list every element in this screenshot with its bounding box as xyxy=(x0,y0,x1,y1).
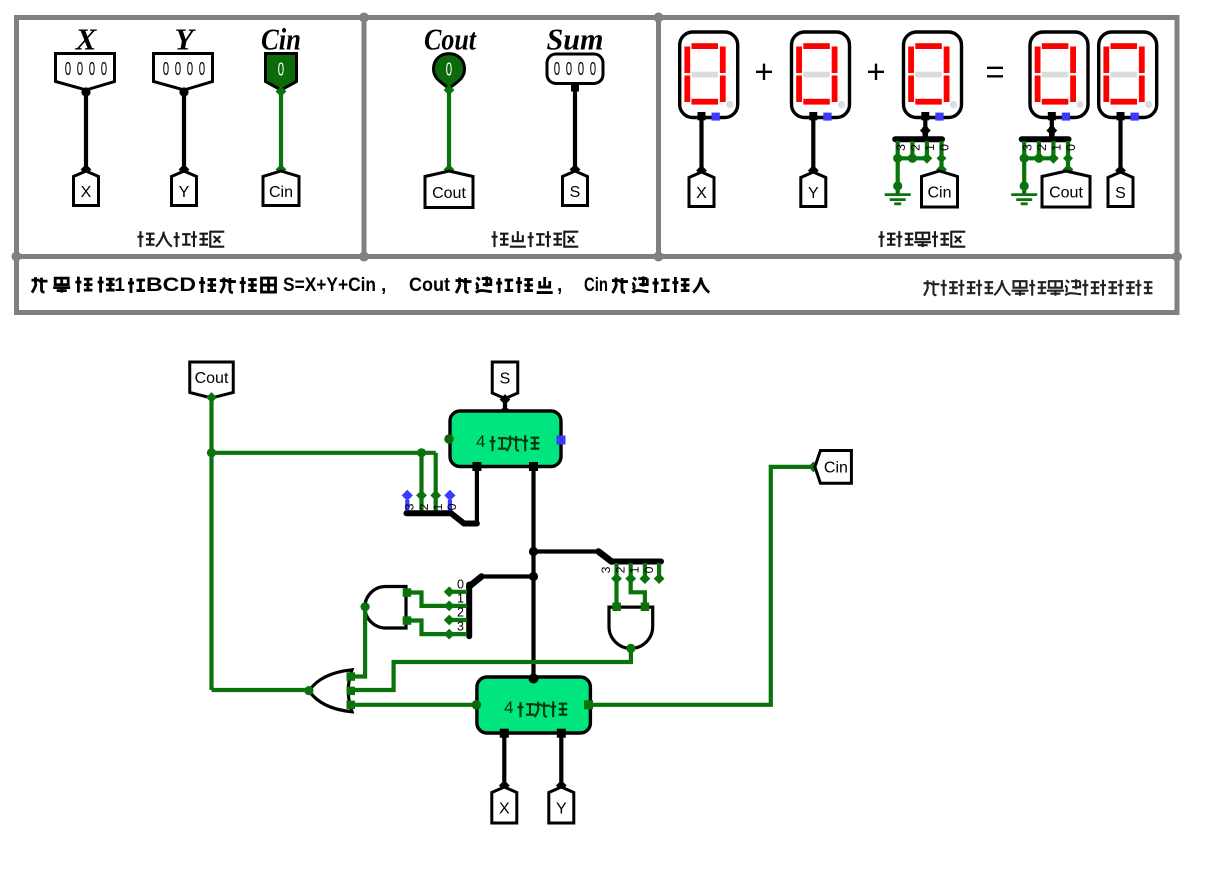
svg-text:2: 2 xyxy=(1035,144,1049,151)
tunnel S (monitor) xyxy=(1108,172,1133,207)
svg-text:,: , xyxy=(557,275,562,296)
svg-text:,: , xyxy=(381,275,386,296)
description text xyxy=(32,275,710,296)
svg-text:Cin: Cin xyxy=(261,22,301,57)
tunnel X (main bottom) xyxy=(492,787,517,823)
svg-text:2: 2 xyxy=(613,566,627,573)
wire adder U2 to tunnel Cin (right) xyxy=(590,467,814,705)
svg-text:2: 2 xyxy=(909,144,923,151)
wire U2 output to OR U4 xyxy=(353,607,366,677)
node: trunk junction 1 xyxy=(529,547,538,556)
svg-text:Cout: Cout xyxy=(195,370,229,387)
tunnel X (monitor) xyxy=(689,172,714,207)
svg-text:3: 3 xyxy=(457,620,464,634)
svg-text:Cin: Cin xyxy=(269,184,293,201)
svg-text:0: 0 xyxy=(938,144,952,151)
7-segment display 5 xyxy=(1099,32,1157,118)
wire SP4 leg2 to AND U3 xyxy=(631,579,645,605)
svg-text:1: 1 xyxy=(457,591,464,605)
wire SP5 leg1 to AND U2 xyxy=(411,593,449,606)
tunnel Y (main bottom) xyxy=(549,787,574,823)
wire display5 to tunnel S xyxy=(1118,119,1122,172)
svg-text:0: 0 xyxy=(554,59,560,79)
wire branch left to splitter SP5 xyxy=(481,574,534,578)
svg-text:Cin: Cin xyxy=(824,460,848,477)
section label 输出引脚区 xyxy=(492,231,579,247)
svg-text:+: + xyxy=(754,53,773,90)
section label 输入引脚区 xyxy=(138,231,225,247)
svg-text:0: 0 xyxy=(642,566,656,573)
trunk wire U1 to U2 xyxy=(531,470,535,674)
wire X pin to tunnel xyxy=(84,90,88,171)
svg-text:0: 0 xyxy=(199,59,205,79)
tunnel Y xyxy=(172,171,197,206)
svg-text:X: X xyxy=(75,22,98,57)
svg-text:0: 0 xyxy=(445,503,459,510)
splitter SP4 (down) xyxy=(612,559,662,565)
svg-text:3: 3 xyxy=(894,144,908,151)
svg-text:BCD: BCD xyxy=(146,275,196,296)
wire to splitter SP3 xyxy=(212,451,436,455)
input pin Y xyxy=(154,54,213,91)
7-segment display 4 xyxy=(1030,32,1088,118)
wire U4 output to Cout vertical xyxy=(212,688,309,692)
splitter for display4 xyxy=(1050,119,1054,127)
7-segment display 3 xyxy=(904,32,962,118)
svg-text:0: 0 xyxy=(1064,144,1078,151)
credit text xyxy=(924,279,1153,296)
wire Cout vertical xyxy=(209,398,213,690)
adder U1 carry-in dot xyxy=(444,434,454,444)
wire branch right to splitter SP4 xyxy=(534,549,600,553)
svg-text:Y: Y xyxy=(808,185,819,202)
wire SP4 leg3 to AND U3 xyxy=(614,579,618,605)
splitter for display3 xyxy=(923,119,927,127)
svg-text:1: 1 xyxy=(431,503,445,510)
and gate U3 (facing down) xyxy=(609,607,653,648)
svg-text:Cout: Cout xyxy=(409,275,451,296)
wire Y pin to tunnel xyxy=(182,90,186,171)
tunnel Cout (main, top-left) xyxy=(190,362,234,398)
svg-text:3: 3 xyxy=(599,566,613,573)
svg-text:Cin: Cin xyxy=(927,185,951,202)
svg-text:0: 0 xyxy=(590,59,596,79)
svg-text:0: 0 xyxy=(89,59,95,79)
splitter SP5 (left) xyxy=(466,585,472,637)
svg-text:0: 0 xyxy=(77,59,83,79)
svg-text:2: 2 xyxy=(457,606,464,620)
adder U1 enable pad xyxy=(557,436,566,445)
svg-text:+: + xyxy=(866,53,885,90)
or gate U4 (facing left) xyxy=(309,670,352,712)
svg-text:Sum: Sum xyxy=(547,22,604,57)
wire leg2 down xyxy=(419,453,423,511)
adder U2 carry-in dot xyxy=(472,700,482,710)
svg-text:4: 4 xyxy=(504,698,513,717)
svg-text:0: 0 xyxy=(101,59,107,79)
svg-text:S: S xyxy=(500,370,511,387)
tunnel S (main) xyxy=(492,362,518,399)
svg-text:0: 0 xyxy=(175,59,181,79)
svg-text:0: 0 xyxy=(163,59,169,79)
wire Sum pin to tunnel xyxy=(573,91,577,171)
7-segment display 1 xyxy=(680,32,738,118)
svg-text:0: 0 xyxy=(187,59,193,79)
wire Cin pin to tunnel xyxy=(279,90,283,171)
tunnel Cout (output section) xyxy=(425,171,473,208)
adder U2 (4-bit adder) xyxy=(477,677,591,733)
adder U1 (4-bit adder) xyxy=(450,411,561,467)
tunnel Cout (monitor) xyxy=(1042,171,1090,207)
tunnel Cin (monitor) xyxy=(922,171,958,207)
node: U2 output xyxy=(361,602,370,611)
input pin X xyxy=(56,54,115,91)
wire S tunnel to adder U1 xyxy=(503,399,507,413)
svg-text:3: 3 xyxy=(403,503,417,510)
svg-text:0: 0 xyxy=(457,577,464,591)
node: junction on Cout wire xyxy=(207,448,216,457)
svg-text:Y: Y xyxy=(179,184,190,201)
wire adder U1 pin B to splitter xyxy=(475,470,479,524)
tunnel X xyxy=(74,171,99,206)
splitter SP3 (upward, feeds adder U1 input B) xyxy=(407,513,477,523)
svg-text:1: 1 xyxy=(1050,144,1064,151)
svg-text:2: 2 xyxy=(417,503,431,510)
svg-text:0: 0 xyxy=(278,60,284,80)
wire adder U2 to tunnel Y xyxy=(559,737,563,787)
tunnel Y (monitor) xyxy=(801,172,826,207)
wire U4 input3 to adder U2 carry-out xyxy=(353,703,475,707)
svg-text:4: 4 xyxy=(476,432,485,451)
svg-text:Y: Y xyxy=(556,801,567,818)
svg-text:Cout: Cout xyxy=(432,185,466,202)
section label 测试监控区 xyxy=(879,231,966,247)
node: U4 output xyxy=(304,686,313,695)
svg-text:X: X xyxy=(696,185,707,202)
svg-text:0: 0 xyxy=(566,59,572,79)
wire SP5 leg3 to AND U2 xyxy=(411,621,449,635)
wire display2 to tunnel Y xyxy=(811,119,815,172)
tunnel Cin (main, right) xyxy=(815,451,852,484)
adder U2 bottom pads xyxy=(500,729,509,738)
node: trunk junction 2 xyxy=(529,572,538,581)
svg-text:Cout: Cout xyxy=(424,22,477,57)
svg-text:S: S xyxy=(570,184,581,201)
svg-text::1: :1 xyxy=(108,275,125,296)
tunnel S (output section) xyxy=(563,171,588,206)
tunnel Cin (input section) xyxy=(263,171,299,206)
7-segment display 2 xyxy=(792,32,850,118)
svg-text:S=X+Y+Cin: S=X+Y+Cin xyxy=(283,275,376,296)
output pin Sum xyxy=(547,54,603,84)
adder U1 bottom pads xyxy=(472,462,481,471)
ground symbol xyxy=(1022,158,1026,193)
svg-text:X: X xyxy=(81,184,92,201)
input pin Cin xyxy=(266,54,297,91)
svg-text:=: = xyxy=(985,53,1004,90)
svg-text:0: 0 xyxy=(65,59,71,79)
wire U3 output to OR U4 xyxy=(353,648,631,690)
adder U2 carry-out pad xyxy=(584,700,593,709)
ground symbol xyxy=(896,158,900,193)
svg-text:1: 1 xyxy=(923,144,937,151)
node: U3 output xyxy=(626,644,635,653)
wire leg1 down xyxy=(434,453,438,511)
adder U2 top pin xyxy=(529,674,539,684)
wire Cout pin to tunnel xyxy=(447,89,451,172)
svg-text:S: S xyxy=(1115,185,1126,202)
wire adder U2 to tunnel X xyxy=(502,737,506,787)
svg-text:Cout: Cout xyxy=(1049,185,1083,202)
svg-text:1: 1 xyxy=(628,566,642,573)
svg-text:X: X xyxy=(499,801,510,818)
and gate U2 (facing left) xyxy=(365,586,406,628)
wire display1 to tunnel X xyxy=(699,119,703,172)
svg-text:0: 0 xyxy=(578,59,584,79)
svg-text:Cin: Cin xyxy=(584,275,608,296)
output pin Cout xyxy=(434,54,465,89)
svg-text:Y: Y xyxy=(175,22,197,57)
svg-text:0: 0 xyxy=(446,60,452,80)
svg-text:3: 3 xyxy=(1020,144,1034,151)
